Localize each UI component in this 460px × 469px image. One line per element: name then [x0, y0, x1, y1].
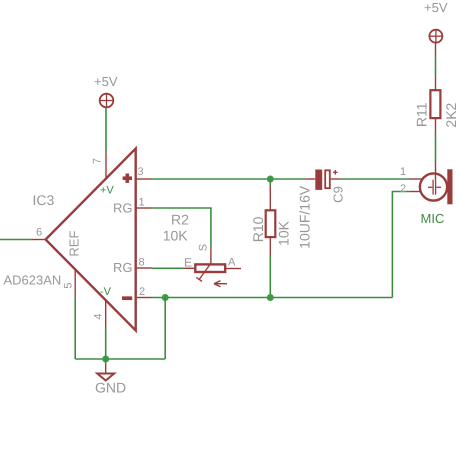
trimmer R2 A pin stub — [226, 268, 241, 270]
wire R10 bottom to pin2 row — [269, 255, 271, 298]
wire bottom gnd rail — [75, 358, 165, 360]
svg-text:E: E — [184, 255, 192, 269]
C9 right pin stub — [331, 178, 340, 180]
svg-text:REF: REF — [67, 231, 82, 257]
svg-text:6: 6 — [36, 227, 42, 239]
microphone MIC body circle — [420, 173, 447, 200]
wire pin4 down — [105, 327, 107, 359]
trimmer R2 body — [195, 264, 225, 272]
ground symbol — [97, 374, 114, 381]
+5V supply symbol P1 (left) — [100, 94, 114, 108]
pin 2 stub — [136, 297, 152, 299]
svg-text:-V: -V — [100, 286, 112, 298]
MIC pin 2 stub — [411, 191, 421, 193]
pin 3 stub — [136, 178, 152, 180]
wire net REF to left edge — [0, 239, 32, 241]
junction gnd rail — [102, 356, 109, 363]
svg-text:1: 1 — [139, 197, 145, 209]
inverting input minus marker — [122, 296, 132, 300]
non-inverting input plus marker — [123, 174, 132, 183]
svg-text:AD623AN: AD623AN — [4, 272, 62, 287]
svg-text:S: S — [197, 244, 209, 251]
svg-text:RG: RG — [113, 201, 133, 216]
pin 7 stub of IC3 — [105, 153, 107, 179]
pin 4 stub — [105, 300, 107, 327]
MIC electret plate bar — [447, 169, 452, 204]
wire gnd stem — [105, 359, 107, 364]
wire MIC pin2 to pin2 row — [392, 192, 410, 298]
wire pin5 down — [74, 297, 76, 359]
trimmer R2 wiper diagonal — [199, 264, 211, 280]
resistor R10 pin top — [269, 186, 271, 211]
wire C9 to MIC pin1 — [340, 178, 411, 180]
R11 top pin stub — [435, 76, 437, 91]
svg-text:C9: C9 — [331, 186, 346, 203]
junction pin2/R10 — [267, 294, 274, 301]
trimmer R2 E pin stub — [184, 267, 196, 269]
svg-text:+5V: +5V — [424, 0, 448, 15]
svg-text:2K2: 2K2 — [443, 102, 459, 127]
svg-text:2: 2 — [139, 286, 145, 298]
svg-text:10K: 10K — [276, 220, 292, 246]
svg-text:+5V: +5V — [94, 74, 118, 89]
op-amp IC3 triangle body — [46, 149, 136, 331]
junction at R10 top — [267, 176, 274, 183]
C9 left pin stub — [306, 178, 315, 180]
wire pin2 row — [152, 297, 393, 299]
svg-text:10K: 10K — [163, 228, 189, 244]
svg-text:10UF/16V: 10UF/16V — [297, 185, 313, 249]
resistor R10 body — [266, 210, 276, 237]
pin 8 stub — [136, 267, 152, 269]
C9 plus polarity mark — [333, 170, 338, 175]
wire +5V to IC3 pin 7 — [105, 108, 107, 153]
wire +5V to R11 — [435, 55, 437, 76]
gnd symbol pin — [105, 364, 107, 374]
R11 bottom pin stub — [435, 119, 437, 134]
trimmer R2 arrow — [214, 281, 227, 287]
pin 1 stub — [136, 207, 152, 209]
svg-text:MIC: MIC — [421, 211, 445, 226]
+5V supply symbol P2 (right) — [429, 30, 442, 43]
MIC pin 1 stub — [411, 178, 423, 180]
capacitor C9 right plate (outline) — [325, 170, 330, 188]
svg-text:4: 4 — [93, 313, 105, 319]
wire junction to R10 — [269, 179, 271, 186]
svg-text:R2: R2 — [171, 212, 189, 228]
svg-text:5: 5 — [62, 282, 74, 288]
svg-text:1: 1 — [400, 166, 406, 178]
svg-text:8: 8 — [139, 257, 145, 269]
trimmer R2 wiper T-bar — [196, 277, 202, 281]
resistor R11 body — [430, 90, 440, 118]
wire R11 to MIC top — [435, 133, 437, 162]
pin 6 stub — [32, 239, 46, 241]
svg-text:2: 2 — [400, 183, 406, 195]
trimmer R2 S pin stub — [210, 248, 212, 264]
svg-text:+V: +V — [100, 185, 114, 197]
wire pin1 row — [152, 208, 211, 248]
svg-text:IC3: IC3 — [33, 192, 55, 208]
resistor R10 pin bottom — [269, 237, 271, 255]
svg-text:R11: R11 — [414, 102, 430, 127]
svg-text:GND: GND — [95, 380, 126, 396]
+5V pin stub (right supply) — [435, 43, 437, 55]
wire pin3 row left part — [152, 178, 307, 180]
svg-text:3: 3 — [138, 166, 144, 178]
wire pin8 row to E — [152, 267, 184, 269]
pin 5 stub — [74, 270, 76, 298]
junction pin2/gnd branch — [162, 294, 169, 301]
svg-text:7: 7 — [92, 158, 104, 164]
svg-text:R10: R10 — [250, 216, 266, 242]
MIC inner capacitor leads — [428, 180, 441, 195]
svg-text:RG: RG — [113, 260, 133, 275]
MIC top pin inside — [435, 162, 437, 180]
wire branch down from pin2 row — [164, 298, 166, 360]
svg-text:A: A — [228, 257, 236, 269]
capacitor C9 left plate (filled) — [315, 170, 322, 190]
